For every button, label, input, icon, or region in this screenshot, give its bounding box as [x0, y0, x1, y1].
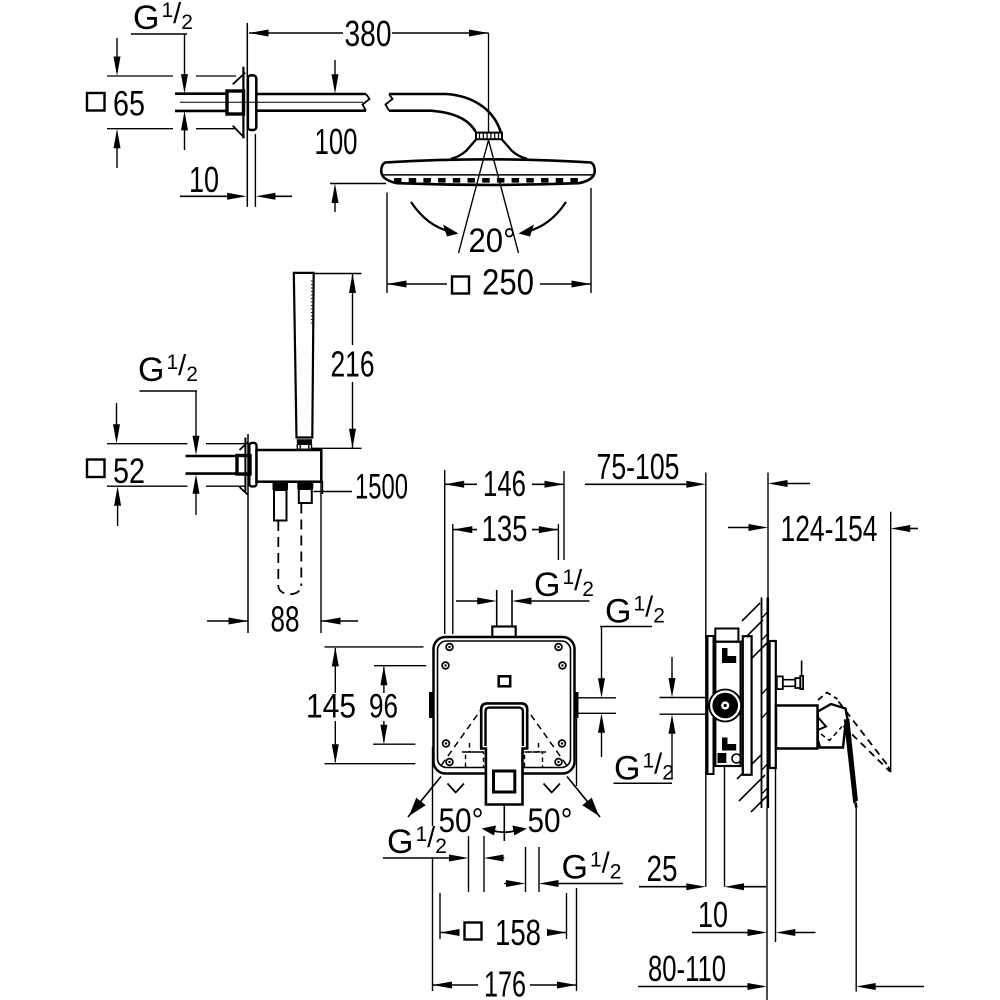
svg-text:50°: 50° — [528, 802, 573, 840]
dim 145 line — [334, 648, 336, 693]
square symbol 52 — [87, 460, 105, 478]
dim 146 extension lines — [444, 470, 446, 634]
dim 380 line — [249, 32, 343, 34]
side port dim arrows — [601, 627, 603, 682]
hose connector right — [297, 483, 313, 489]
body bottom black square — [718, 753, 727, 763]
wall face extension line V2 — [767, 473, 769, 598]
dim 88 extension right — [320, 449, 322, 633]
center square opening — [499, 676, 511, 686]
head cone right side — [502, 139, 527, 159]
dim 80-110 line — [638, 986, 751, 988]
swivel arrow left — [411, 202, 450, 232]
svg-text:158: 158 — [495, 912, 541, 953]
trim sleeve side — [776, 706, 818, 749]
dim 96 extension lines — [374, 665, 426, 667]
svg-text:135: 135 — [482, 508, 528, 549]
pipe break symbol right — [386, 94, 393, 111]
dim 65 extension lines — [107, 75, 173, 77]
lever bottom square hole — [494, 771, 515, 792]
diverter knob — [777, 676, 783, 689]
cartridge black donut — [712, 693, 738, 719]
arm bend inner curve — [431, 111, 476, 132]
label G1/2 (side view port) — [660, 697, 706, 699]
box back extension line V1 — [705, 473, 707, 887]
svg-text:124-154: 124-154 — [781, 508, 878, 549]
outlet left extension lines — [468, 836, 470, 892]
mixer body main — [715, 642, 740, 766]
holder back plate line — [244, 438, 246, 492]
svg-text:80-110: 80-110 — [648, 948, 726, 989]
wall front face extension lower — [766, 808, 768, 1000]
dashed outlet right — [525, 752, 543, 767]
arm pipe right of flange — [256, 93, 366, 96]
angle 50 leg arrowhead left — [409, 798, 426, 816]
dim 52 arrows — [116, 403, 118, 427]
dim 10 flange extension line — [254, 134, 256, 207]
dim 158 extension lines — [439, 893, 441, 939]
dim 216 bottom extension — [312, 447, 362, 449]
dim 135 line — [453, 529, 477, 531]
right port extension lines front view — [579, 697, 617, 699]
dim 88 line — [207, 620, 248, 622]
square symbol 158 — [465, 923, 482, 940]
body internals black top — [722, 648, 728, 663]
svg-text:75-105: 75-105 — [597, 446, 680, 487]
lever grip tip — [854, 803, 857, 808]
lever base solid — [818, 704, 848, 748]
left side port G1/2 — [429, 692, 434, 718]
head centerline ext for 380 — [488, 33, 490, 143]
mixer box outer — [434, 637, 575, 774]
dim 250 extension right — [590, 188, 592, 293]
dim 145 extension lines — [325, 646, 424, 648]
dim 25 extension line — [724, 682, 726, 887]
outlet right extension lines — [525, 847, 527, 892]
arm pipe second segment — [389, 93, 446, 96]
dashed lever swing line right — [527, 709, 567, 765]
svg-text:88: 88 — [271, 599, 300, 640]
flange chamfer tick lower — [233, 126, 245, 138]
dim 250 line — [387, 283, 447, 285]
angle 50 leg arrowhead right — [582, 798, 599, 816]
svg-text:1500: 1500 — [355, 468, 408, 507]
lever dashed position up — [818, 693, 838, 701]
dim 10 flange line — [180, 195, 230, 197]
opposing arrow — [484, 855, 504, 862]
arm pipe left stub — [175, 92, 227, 95]
svg-text:96: 96 — [369, 688, 398, 726]
head cone left side — [451, 139, 476, 159]
dim 65 arrows — [116, 38, 118, 60]
arm pipe centerline — [180, 101, 363, 103]
holder wall plate — [249, 443, 256, 487]
flange back plate line — [242, 67, 244, 139]
angle 20 V line left — [459, 140, 489, 253]
svg-text:65: 65 — [113, 85, 145, 124]
square symbol 250 — [452, 277, 469, 294]
svg-text:216: 216 — [331, 344, 375, 385]
escutcheon plate side — [770, 641, 776, 768]
dim 250 extension left — [386, 193, 388, 294]
angle 20 V line right — [489, 140, 519, 253]
lever grip extension line — [855, 808, 857, 992]
dim 52 extension lines — [107, 443, 187, 445]
arm nut at wall — [227, 91, 244, 114]
opposing arrow right outlet — [506, 880, 526, 887]
svg-text:10: 10 — [189, 159, 219, 200]
cartridge outer ring — [709, 690, 741, 722]
G1/2 leader arrows onto arm pipe — [184, 34, 186, 77]
dim 216 line upper part — [352, 274, 354, 346]
knob pin — [801, 661, 803, 676]
dim 100 lower arrow — [332, 184, 339, 204]
arm bend outer curve — [446, 94, 501, 132]
dim 100 bottom extension line — [330, 183, 386, 185]
dim 158 line — [440, 932, 459, 934]
svg-text:145: 145 — [306, 688, 356, 726]
holder body right edge line — [322, 481, 324, 494]
body top stub — [715, 629, 738, 642]
lever grip solid — [844, 719, 858, 804]
label 1500 leader — [314, 491, 353, 493]
holder nut — [237, 456, 250, 475]
mixer box inner — [438, 641, 571, 768]
lever dashed chevron — [821, 727, 842, 741]
svg-text:176: 176 — [484, 964, 526, 1000]
wall tile column — [761, 598, 763, 809]
mounting plate — [743, 636, 752, 775]
svg-text:250: 250 — [482, 262, 534, 303]
wall line (top view) — [246, 23, 248, 207]
holder body — [257, 450, 322, 482]
handle nut facets — [297, 444, 311, 449]
right side port G1/2 — [574, 692, 579, 718]
dim 10 line — [692, 932, 751, 934]
escutcheon front extension lower — [775, 768, 777, 942]
G1/2 inlet dim line+arrows — [456, 600, 480, 602]
dim 146 line — [445, 483, 477, 485]
shower head collar with thread ticks — [476, 133, 502, 140]
chevron mark left — [448, 784, 465, 793]
handle nut band — [297, 439, 313, 444]
pipe break symbol left — [363, 94, 370, 111]
flange chamfer tick upper — [233, 73, 246, 85]
lever tip extension line V3 — [890, 512, 892, 773]
holder chamfer tick upper — [240, 443, 248, 451]
wall hatch upper — [742, 603, 760, 621]
opposing arrow at wall — [768, 480, 788, 487]
dim 75-105 line — [585, 483, 688, 485]
shower head body — [381, 159, 594, 185]
swivel arrow right — [527, 202, 566, 232]
dim 176 extension lines — [432, 747, 434, 826]
holder chamfer tick lower — [240, 487, 248, 495]
lever handle inner line — [486, 708, 523, 746]
lever stem below — [503, 805, 505, 842]
dim 124-154 line — [728, 527, 752, 529]
wall flange plate — [248, 75, 256, 130]
svg-text:20°: 20° — [469, 222, 516, 260]
head face plate line — [382, 174, 595, 176]
body bottom small circle — [732, 754, 741, 763]
holder pipe stub — [186, 455, 237, 458]
dashed lever swing line left — [442, 709, 482, 765]
lever base inner wedge — [818, 717, 826, 730]
inlet collar — [492, 627, 515, 638]
inlet pipe — [496, 590, 498, 627]
tile column inner hatch — [762, 612, 768, 618]
dim 216 top extension — [314, 273, 362, 275]
svg-text:52: 52 — [113, 452, 145, 491]
head nozzle dashes — [394, 178, 580, 183]
box corner screws — [446, 644, 453, 651]
dim 25 line — [639, 886, 690, 888]
hose connector left — [273, 483, 289, 490]
G1/2 leader arrows onto holder pipe — [195, 391, 197, 441]
body internals black bottom — [722, 738, 728, 751]
dashed outlet left — [466, 752, 484, 767]
svg-text:10: 10 — [698, 894, 728, 935]
svg-text:380: 380 — [345, 13, 392, 54]
dim 176 line — [433, 984, 479, 986]
angle 50 leg right solid — [567, 777, 600, 818]
dim 100 upper arrow — [334, 60, 336, 80]
svg-text:100: 100 — [315, 121, 358, 162]
wall hatch lower — [737, 755, 761, 779]
lever handle front - wide section — [481, 703, 527, 804]
chevron mark right — [544, 784, 561, 793]
dim 135 extension lines — [452, 524, 454, 634]
dim 216 line lower part — [352, 382, 354, 448]
wall line (holder) — [247, 434, 249, 633]
svg-text:146: 146 — [483, 463, 526, 504]
angle arc with arrowheads — [492, 831, 516, 833]
hand shower handle — [294, 273, 314, 438]
dim 96 line — [383, 667, 385, 693]
mixer body back plate — [708, 636, 714, 774]
handle spray hatch — [311, 280, 314, 282]
svg-text:25: 25 — [647, 848, 678, 889]
hand shower hose dashed — [277, 521, 279, 586]
square symbol 65 — [87, 93, 105, 111]
angle 50 leg left solid — [408, 777, 441, 818]
